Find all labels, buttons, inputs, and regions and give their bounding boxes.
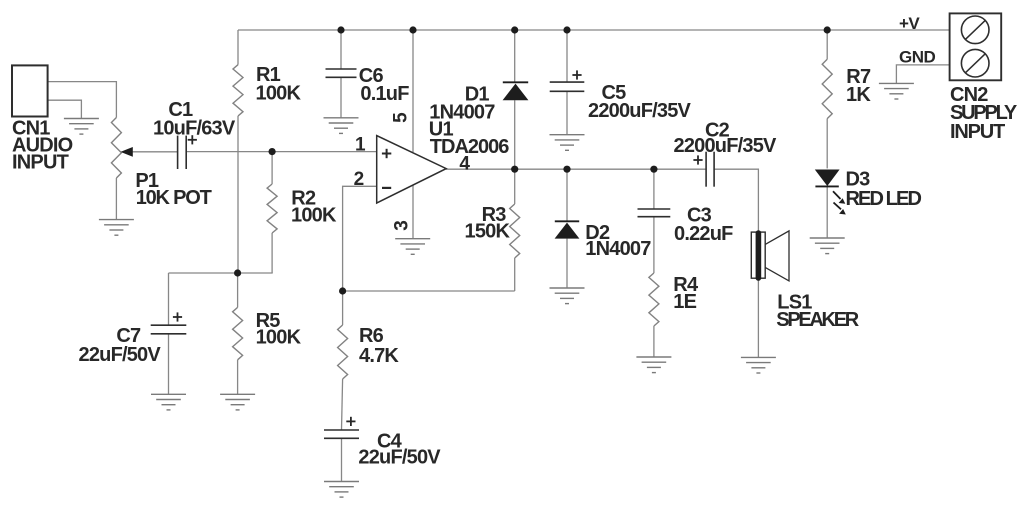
wire C6 bottom stem: [340, 77, 342, 118]
svg-text:10K POT: 10K POT: [136, 187, 212, 209]
svg-text:3: 3: [391, 220, 412, 231]
ground C5: [550, 134, 585, 136]
svg-text:+V: +V: [899, 14, 920, 33]
svg-text:150K: 150K: [465, 221, 511, 243]
ground C4: [324, 481, 359, 483]
svg-text:0.22uF: 0.22uF: [674, 223, 733, 245]
ground CN2 GND: [879, 82, 914, 84]
wire CN1 pin1 to pot: [47, 82, 116, 118]
wire C7 bottom to ground: [168, 334, 170, 395]
wire C5 bottom to ground: [566, 91, 568, 134]
wire R6 top: [342, 291, 344, 325]
ground op-amp pin3: [395, 238, 430, 240]
wire C7 top: [168, 273, 170, 325]
ground R5: [220, 393, 255, 395]
CN2 screw terminal 1: [961, 16, 989, 44]
svg-text:GND: GND: [899, 47, 936, 66]
wire pot wiper to C1: [131, 151, 178, 153]
ground LS1: [741, 356, 776, 358]
svg-text:R6: R6: [359, 325, 384, 347]
wire C5 top from rail: [566, 30, 568, 82]
D3 emission arrows: [833, 191, 841, 199]
svg-text:22uF/50V: 22uF/50V: [79, 344, 162, 366]
junction node D1/R3: [511, 166, 518, 173]
C7 plus sign: [173, 316, 182, 318]
capacitor C2: [705, 152, 707, 187]
svg-text:1K: 1K: [846, 84, 871, 106]
potentiometer P1: [111, 118, 121, 179]
P1 wiper arrow: [121, 147, 133, 157]
junction node D2: [563, 166, 570, 173]
svg-text:RED LED: RED LED: [846, 188, 922, 210]
svg-text:1: 1: [355, 134, 366, 155]
wire R2 bottom: [271, 233, 273, 273]
wire op-amp pin 2: [343, 186, 377, 291]
svg-text:5: 5: [390, 112, 411, 123]
svg-text:4.7K: 4.7K: [359, 345, 399, 367]
resistor R5: [233, 307, 243, 359]
wire C6 top stem: [340, 30, 342, 69]
wire +V top rail: [238, 29, 950, 31]
capacitor C4: [324, 429, 359, 431]
op-amp U1 triangle: [377, 136, 447, 203]
ground C6: [324, 117, 359, 119]
capacitor C7: [151, 324, 187, 326]
svg-text:0.1uF: 0.1uF: [360, 83, 409, 105]
svg-text:100K: 100K: [291, 204, 337, 226]
C2 plus sign: [693, 159, 702, 161]
resistor R2: [267, 184, 277, 233]
CN2 screw terminal 2: [961, 49, 989, 77]
wire C1 to op-amp pin 1: [186, 151, 377, 153]
svg-text:10uF/63V: 10uF/63V: [153, 118, 236, 140]
wire feedback bottom horizontal: [343, 290, 515, 292]
ground CN1: [64, 118, 99, 120]
connector CN1 box: [12, 65, 48, 116]
wire R3 top: [514, 169, 516, 204]
wire C3 top: [653, 169, 655, 209]
junction node input: [269, 148, 276, 155]
ground D3: [810, 237, 845, 239]
wire R7 from rail: [826, 30, 828, 59]
wire C3 to R4: [653, 217, 655, 273]
svg-text:100K: 100K: [256, 327, 302, 349]
svg-text:SPEAKER: SPEAKER: [776, 309, 859, 331]
svg-text:1E: 1E: [673, 291, 696, 313]
wire CN2 GND to ground: [896, 65, 949, 84]
wire R6 to C4: [342, 379, 343, 430]
ground C7: [151, 393, 186, 395]
resistor R1: [233, 65, 243, 116]
wire D1 top from rail: [514, 30, 516, 82]
C1 plus sign: [188, 139, 197, 141]
wire R2 column: [271, 152, 273, 184]
svg-text:22uF/50V: 22uF/50V: [358, 447, 441, 469]
svg-text:1N4007: 1N4007: [429, 101, 495, 123]
capacitor C5: [550, 81, 585, 83]
capacitor C6: [326, 68, 357, 70]
capacitor C3: [638, 208, 671, 210]
ground R4: [636, 356, 671, 358]
svg-text:2200uF/35V: 2200uF/35V: [588, 100, 692, 122]
junction node R7 rail: [824, 26, 831, 33]
wire R1 column top: [237, 30, 239, 65]
C4 plus sign: [346, 420, 355, 422]
svg-text:1N4007: 1N4007: [585, 238, 651, 260]
resistor R4: [649, 273, 659, 326]
wire R4 bottom to ground: [653, 326, 655, 357]
wire op-amp pin 5 from rail: [412, 30, 414, 152]
junction node pin2/R6: [339, 287, 346, 294]
resistor R7: [822, 59, 832, 118]
svg-text:INPUT: INPUT: [950, 121, 1005, 143]
wire speaker bottom to ground: [757, 281, 759, 358]
svg-text:100K: 100K: [256, 83, 302, 105]
wire D2 top: [566, 169, 568, 221]
speaker LS1: [751, 232, 765, 278]
resistor R3: [510, 204, 520, 258]
wire R7 to D3: [826, 119, 828, 169]
junction node C3: [650, 166, 657, 173]
svg-text:2200uF/35V: 2200uF/35V: [674, 135, 778, 157]
junction node feedback: [234, 269, 241, 276]
op-amp minus input mark: [382, 187, 391, 189]
wire CN1 pin2 to ground: [47, 100, 81, 118]
wire R5 bottom to ground: [237, 360, 239, 395]
C5 plus sign: [572, 74, 581, 76]
wire pot bottom: [115, 178, 117, 219]
diode D2: [555, 220, 579, 222]
junction dots on rail: [337, 26, 344, 33]
wire R1 bottom to node: [237, 116, 239, 273]
wire feedback node horizontal: [169, 272, 273, 274]
diode D1: [503, 81, 528, 83]
wire op-amp pin 3 to ground: [412, 185, 414, 239]
ground P1: [99, 219, 134, 221]
wire D3 to ground: [826, 187, 828, 238]
wire C4 bottom to ground: [341, 438, 343, 481]
capacitor C1: [177, 136, 179, 169]
svg-text:TDA2006: TDA2006: [430, 136, 509, 158]
wire R3 bottom: [514, 258, 516, 291]
op-amp plus input mark: [382, 153, 391, 155]
wire C2 to speaker: [714, 169, 758, 231]
svg-text:INPUT: INPUT: [12, 152, 69, 174]
wire D1 bottom to output: [514, 100, 516, 169]
svg-text:4: 4: [459, 154, 470, 175]
ground D2: [550, 287, 585, 289]
resistor R6: [338, 325, 348, 379]
LED D3: [815, 170, 840, 187]
svg-text:2: 2: [354, 169, 364, 190]
wire D2 bottom to ground: [566, 239, 568, 288]
wire output node: [446, 168, 706, 170]
wire R5 top: [237, 273, 239, 307]
connector CN2 box: [950, 13, 1002, 80]
